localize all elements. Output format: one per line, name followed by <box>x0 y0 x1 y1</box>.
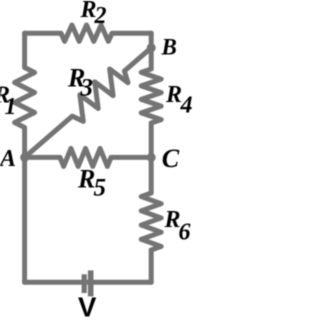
resistor R2 (top edge) <box>25 25 152 41</box>
resistor R3 (diagonal wire A to B) <box>25 48 152 158</box>
node B junction dot <box>147 43 156 52</box>
wire bottom with battery V <box>25 280 152 285</box>
node A junction dot <box>20 153 29 162</box>
svg-text:4: 4 <box>180 93 193 119</box>
battery V right plate <box>88 270 94 296</box>
svg-text:B: B <box>161 35 177 60</box>
svg-text:3: 3 <box>80 75 94 102</box>
resistor R1 (left edge) <box>15 33 35 282</box>
battery V left plate <box>82 274 87 293</box>
svg-text:6: 6 <box>179 220 191 246</box>
svg-text:1: 1 <box>5 94 17 120</box>
svg-text:5: 5 <box>94 175 107 202</box>
resistor R5 (wire A to C) <box>25 148 152 166</box>
svg-text:V: V <box>78 292 97 321</box>
svg-text:2: 2 <box>94 3 107 29</box>
svg-text:A: A <box>0 146 16 172</box>
node C junction dot <box>147 153 156 162</box>
svg-text:C: C <box>162 144 180 173</box>
resistor R4 and resistor R6 (right edge) <box>141 33 161 282</box>
svg-text:R: R <box>165 82 182 108</box>
